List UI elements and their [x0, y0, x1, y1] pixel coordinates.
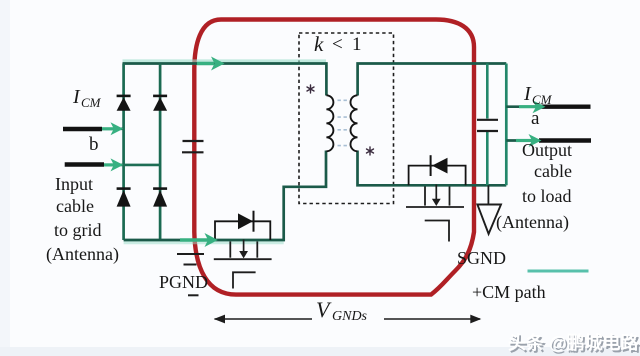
diode D1 (bridge upper-left) [117, 96, 131, 111]
wire bridge left vertical [122, 64, 125, 241]
wire right outer vertical [505, 64, 508, 186]
wire SGND stub [487, 185, 489, 204]
svg-text:cable: cable [56, 196, 94, 216]
svg-text:CM: CM [532, 92, 553, 107]
cable input b [63, 127, 102, 131]
MOSFET Q2 channel [406, 187, 464, 208]
left faint band [0, 0, 10, 356]
MOSFET Q1 channel [214, 242, 272, 260]
svg-text:a: a [531, 108, 540, 129]
wire bridge right vertical [159, 64, 162, 240]
svg-text:Output: Output [522, 140, 572, 160]
svg-text:SGND: SGND [457, 248, 506, 268]
svg-text:PGND: PGND [159, 272, 208, 292]
wire top-left segment [123, 64, 327, 96]
wire top-right segment [358, 64, 507, 96]
V_GNDs dimension left arrow [214, 315, 312, 324]
CM arrow output a [519, 100, 546, 113]
svg-text:头条 @鹏城电路: 头条 @鹏城电路 [508, 332, 640, 353]
diode D2 (bridge upper-right) [153, 96, 167, 111]
svg-text:<: < [332, 34, 343, 55]
wire bottom-left halo [124, 239, 284, 244]
SGND ground triangle [477, 205, 501, 234]
svg-text:(Antenna): (Antenna) [496, 212, 569, 233]
svg-text:cable: cable [534, 161, 572, 181]
red CM loop outline [194, 20, 474, 295]
capacitor C1 (DC link, on red line) [182, 141, 204, 152]
CM arrow bottom-left wire [180, 233, 218, 247]
V_GNDs dimension right arrow [384, 315, 481, 324]
capacitor C2 (output side) [477, 120, 498, 131]
diode D4 (bridge lower-right) [153, 189, 167, 207]
PGND ground symbol [177, 254, 204, 295]
transformer secondary coil [351, 95, 358, 151]
wire input lower node connector [103, 164, 160, 167]
polarity dot secondary [367, 147, 374, 155]
cable input lower [65, 162, 104, 166]
wire input b node [101, 128, 124, 131]
svg-text:CM: CM [81, 95, 102, 110]
dashed coupling box k<1 [299, 33, 394, 204]
wire bottom-left segment [124, 151, 326, 241]
wire output a branch [506, 105, 542, 108]
svg-text:Input: Input [55, 174, 93, 194]
MOSFET Q1 body diode loop [215, 221, 270, 240]
cable output lower [539, 138, 591, 142]
wire right capacitor upper lead [486, 64, 489, 119]
transformer primary coil [326, 95, 333, 151]
CM arrow top wire [197, 57, 225, 71]
svg-text:to grid: to grid [54, 220, 102, 240]
CM arrow input lower [104, 158, 123, 171]
MOSFET Q1 arrow [239, 240, 248, 259]
MOSFET Q2 body diode [431, 155, 448, 176]
svg-text:b: b [89, 134, 99, 155]
svg-text:1: 1 [352, 34, 362, 55]
wire right capacitor lower lead [486, 132, 489, 185]
svg-text:I: I [72, 86, 81, 108]
MOSFET Q2 body diode loop [409, 166, 466, 186]
wire output lower branch [506, 139, 540, 142]
MOSFET Q2 arrow [432, 185, 441, 207]
svg-text:I: I [523, 83, 532, 105]
CM arrow input b [102, 122, 123, 135]
cable output a [541, 104, 590, 108]
MOSFET Q1 body diode [238, 211, 254, 232]
svg-text:(Antenna): (Antenna) [46, 244, 119, 265]
diode D3 (bridge lower-left) [117, 189, 131, 207]
transformer core dashes [338, 100, 347, 145]
MOSFET Q1 gate lead [233, 272, 256, 288]
svg-text:GNDs: GNDs [332, 309, 368, 324]
CM arrow output lower [516, 134, 542, 147]
polarity dot primary [307, 85, 314, 93]
wire bottom-right segment [358, 151, 507, 186]
svg-text:k: k [314, 32, 324, 56]
wire top-left halo [123, 59, 327, 63]
legend CM path line [528, 270, 589, 273]
bottom strip [0, 347, 640, 356]
svg-text:+CM path: +CM path [472, 282, 546, 302]
MOSFET Q2 gate lead [425, 221, 449, 242]
svg-text:to load: to load [522, 186, 572, 206]
